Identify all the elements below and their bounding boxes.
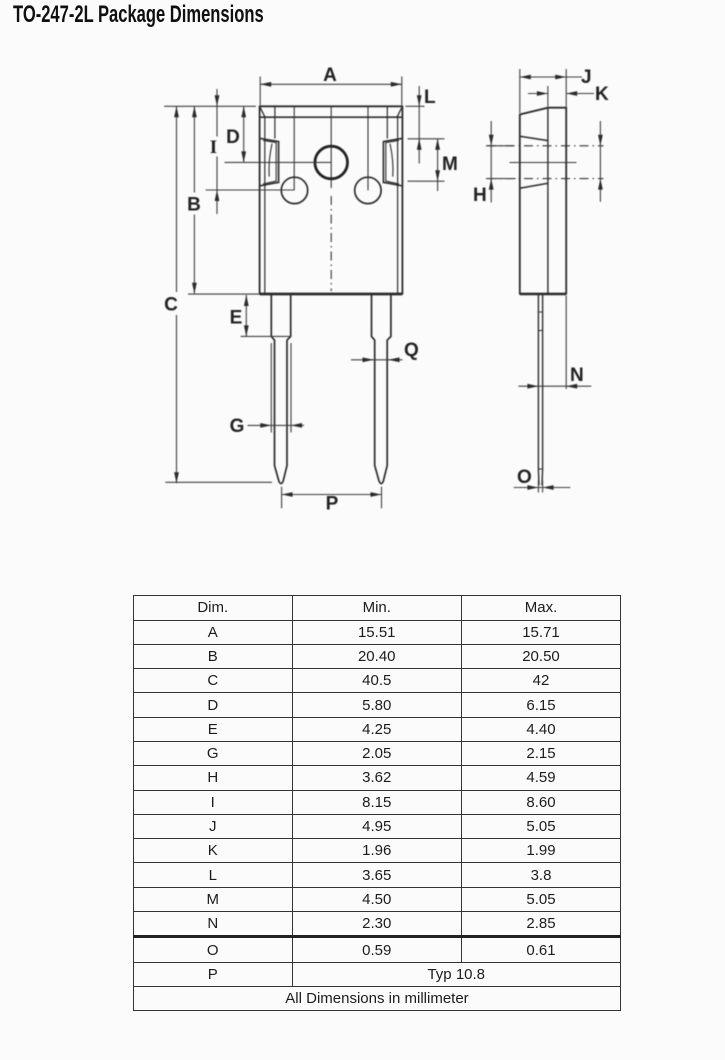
svg-text:P: P <box>326 494 339 515</box>
dim line H right side <box>599 121 601 202</box>
ext line L top <box>406 105 425 107</box>
side view bottom edge <box>520 293 566 295</box>
svg-text:L: L <box>424 87 436 108</box>
svg-text:B: B <box>187 195 201 216</box>
dim line D <box>243 106 245 162</box>
right hole axis line <box>367 106 369 190</box>
tick H top <box>486 145 515 147</box>
dim line Q <box>351 359 403 361</box>
svg-text:I: I <box>210 137 217 158</box>
ext line body bottom left <box>188 293 260 295</box>
ext line K <box>547 86 549 107</box>
arrow G right <box>291 423 302 428</box>
dim line O <box>514 487 571 489</box>
front view inner left edge line <box>264 117 266 293</box>
ext line G right <box>290 343 292 433</box>
arrow J left <box>520 75 531 80</box>
arrow G left <box>260 423 271 428</box>
left hole axis line <box>293 106 295 190</box>
right side notch <box>383 138 402 186</box>
dim line A <box>260 83 402 85</box>
arrow I bottom <box>215 190 220 201</box>
svg-text:G: G <box>230 416 245 437</box>
arrow H bottom <box>489 179 494 190</box>
arrow Q left <box>363 357 374 362</box>
arrow L top <box>417 95 422 106</box>
front view left chamfer vertical <box>274 106 276 138</box>
arrow H right bottom <box>598 179 603 190</box>
arrow H right top <box>598 135 603 146</box>
ext line lead bottom <box>165 481 272 483</box>
svg-text:A: A <box>323 65 337 86</box>
ext line dimple center <box>206 189 295 191</box>
ext line J right <box>565 69 567 107</box>
arrow N right <box>566 384 577 389</box>
arrow J right <box>555 75 566 80</box>
right lead <box>372 294 391 483</box>
arrow M bottom <box>435 170 440 181</box>
arrow A right <box>391 82 402 87</box>
ext line P left <box>281 487 283 509</box>
ext line A right <box>401 77 403 106</box>
vertical center line solid part <box>330 106 332 188</box>
ext line L-M shared <box>408 138 445 140</box>
left lead <box>271 294 290 483</box>
dim line J <box>520 76 582 78</box>
side view inner vertical line <box>547 108 549 294</box>
front view top-left chamfer <box>260 108 265 118</box>
dim line G <box>248 424 305 426</box>
svg-text:J: J <box>581 67 592 88</box>
mounting hole <box>315 146 348 179</box>
arrow A left <box>260 82 271 87</box>
dimensions table <box>133 595 621 1011</box>
arrow E top <box>244 295 249 306</box>
svg-text:C: C <box>164 295 178 316</box>
svg-text:Q: Q <box>404 340 419 361</box>
arrow P right <box>371 492 382 497</box>
front view inner right edge line <box>397 117 399 293</box>
dim line C <box>176 106 178 483</box>
dim line B <box>193 106 195 293</box>
arrow D bottom <box>241 151 246 162</box>
arrow O right <box>543 485 554 490</box>
front view body outline <box>260 106 403 293</box>
vertical center line dashed part <box>330 196 332 291</box>
arrow B top <box>192 106 197 117</box>
arrow K left <box>537 91 548 96</box>
side view lower slant line <box>520 183 548 188</box>
svg-text:M: M <box>442 154 458 175</box>
dim line K left <box>528 93 548 95</box>
dim line N <box>518 385 591 387</box>
ext line J left <box>519 69 521 113</box>
ext line M bottom <box>408 180 445 182</box>
ext line O left <box>537 480 539 493</box>
ext line A left <box>259 77 261 106</box>
arrow Q right <box>389 357 400 362</box>
arrow C bottom <box>174 472 179 483</box>
svg-text:N: N <box>570 365 584 386</box>
arrow P left <box>282 492 293 497</box>
right dimple circle <box>355 177 381 203</box>
arrow B bottom <box>192 283 197 294</box>
ext line O right <box>542 480 544 493</box>
ext line top-of-body left <box>164 105 256 107</box>
dim line I <box>216 89 218 214</box>
left dimple circle <box>281 177 307 203</box>
arrow E bottom <box>244 325 249 336</box>
front view top flange line <box>260 116 403 118</box>
ext line P right <box>381 487 383 509</box>
side view <box>520 108 566 294</box>
ext line N <box>565 296 567 390</box>
dim line E <box>245 295 247 336</box>
arrow K right <box>566 91 577 96</box>
front view bottom edge <box>260 293 403 296</box>
svg-text:H: H <box>473 185 487 206</box>
ext line lead step <box>241 335 291 337</box>
arrow N left <box>527 384 538 389</box>
ext line hole center <box>225 161 332 163</box>
arrow M top <box>435 139 440 150</box>
dim line H <box>490 121 492 203</box>
dim line K right <box>566 93 594 95</box>
arrow L bottom <box>417 139 422 150</box>
dim line L <box>418 86 420 164</box>
side view upper slant line <box>520 136 548 140</box>
side view body outline <box>520 108 566 294</box>
arrow O left <box>527 485 538 490</box>
dim line P <box>282 494 382 496</box>
arrow D top <box>241 106 246 117</box>
svg-text:E: E <box>230 308 243 329</box>
arrow H top <box>489 135 494 146</box>
svg-text:K: K <box>595 84 609 105</box>
ext line G left <box>270 343 272 433</box>
side view lead <box>538 295 542 486</box>
svg-text:O: O <box>517 467 532 488</box>
hidden hole bottom dash line <box>487 178 604 180</box>
left side notch <box>260 138 279 186</box>
svg-text:D: D <box>226 127 240 148</box>
tick H bottom <box>486 178 516 180</box>
dim line M <box>437 139 439 191</box>
front view top-right chamfer <box>397 108 402 118</box>
side hole center line <box>510 162 577 164</box>
arrow C top <box>174 106 179 117</box>
title <box>13 1 264 29</box>
front view right chamfer vertical <box>386 106 388 138</box>
hidden hole top dash line <box>487 145 604 147</box>
arrow I top <box>215 95 220 106</box>
